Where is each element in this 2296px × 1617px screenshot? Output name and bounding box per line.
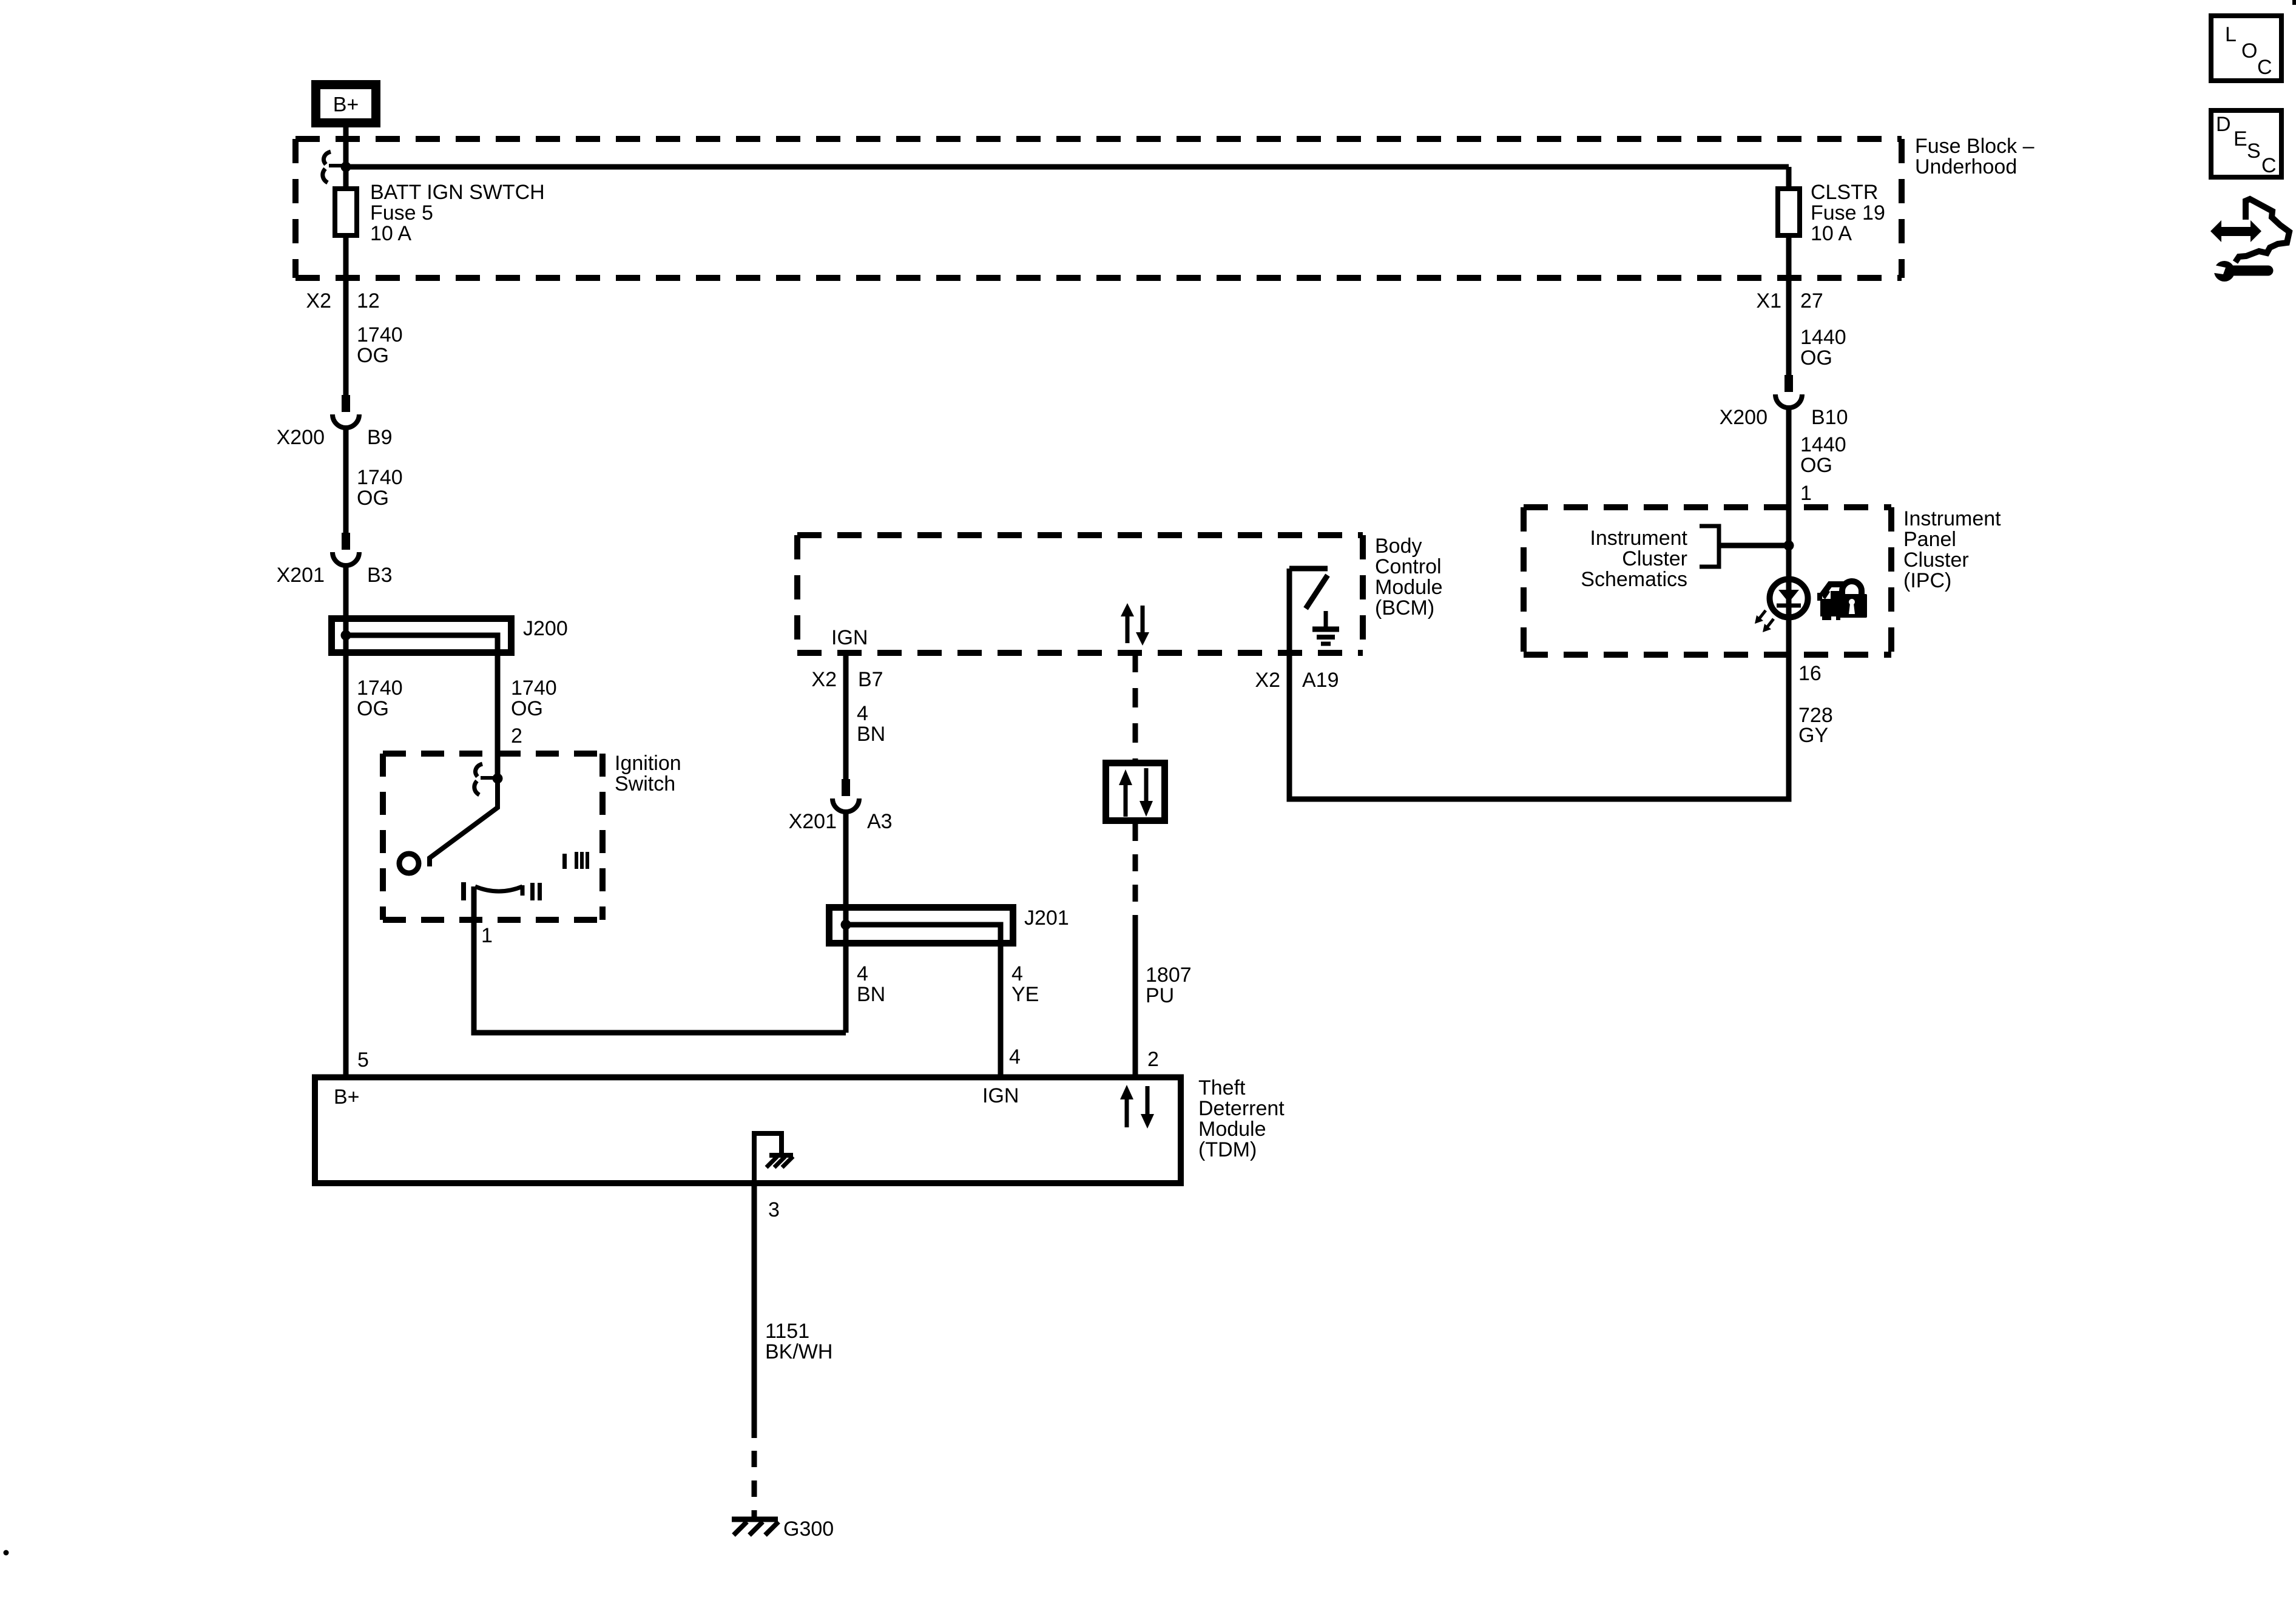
ignition switch label [615, 752, 681, 795]
BCM dashed box [797, 535, 1363, 653]
svg-text:27: 27 [1800, 289, 1823, 312]
svg-text:10 A: 10 A [1811, 222, 1852, 245]
svg-text:PU: PU [1146, 984, 1174, 1007]
security indicator LED [1770, 579, 1808, 618]
wire A3 through J201 to jog [843, 812, 849, 1033]
pin 2 label TDM [1147, 1048, 1159, 1071]
ignition switch input node and clip contact [474, 764, 503, 795]
fuse F5 labels [370, 181, 545, 245]
pin X2-A19 labels [1255, 669, 1339, 692]
svg-text:Module: Module [1375, 576, 1443, 599]
pin 4 label TDM [1009, 1045, 1021, 1068]
svg-text:X2: X2 [1255, 669, 1280, 692]
svg-text:Fuse 19: Fuse 19 [1811, 201, 1885, 224]
pin 1 label IPC [1800, 482, 1812, 505]
svg-text:BK/WH: BK/WH [765, 1340, 832, 1363]
svg-text:Control: Control [1375, 555, 1442, 578]
wire label 728 GY [1798, 704, 1833, 747]
svg-text:Switch: Switch [615, 772, 675, 795]
svg-text:4: 4 [857, 702, 868, 725]
position II marks [530, 883, 542, 900]
svg-text:OG: OG [357, 344, 389, 367]
svg-text:YE: YE [1011, 983, 1039, 1006]
svg-text:5: 5 [357, 1048, 369, 1072]
LED emission arrows [1755, 610, 1774, 632]
TDM box [315, 1078, 1181, 1184]
BCM IGN output label [831, 626, 868, 649]
svg-text:1740: 1740 [357, 323, 403, 346]
wire label 1740 OG (left below J200) [357, 677, 403, 720]
pin 3 label TDM [768, 1198, 780, 1221]
pin 2 label ignition switch [511, 724, 522, 748]
svg-text:(BCM): (BCM) [1375, 596, 1434, 619]
svg-text:X200: X200 [1720, 406, 1768, 429]
ground wire 1151 BK/WH [752, 1183, 757, 1518]
svg-text:X201: X201 [277, 564, 325, 587]
wire B+ terminal to bus [343, 127, 349, 167]
wire label 1740 OG (right branch) [511, 677, 557, 720]
svg-text:Theft: Theft [1198, 1076, 1246, 1099]
power terminal B+ [316, 85, 376, 123]
inline connector serial data pass-through [1106, 763, 1165, 821]
svg-text:BN: BN [857, 723, 885, 746]
wire label 1151 BK/WH [765, 1320, 832, 1363]
wire label 4 BN (below J201) [857, 962, 885, 1006]
fuse F19 labels [1811, 181, 1885, 245]
wire B9 to B3 [343, 428, 349, 533]
svg-text:Instrument: Instrument [1903, 507, 2001, 530]
node: junction at LED feed [1784, 541, 1794, 551]
wire BCM B7 (IGN) down [843, 653, 849, 779]
svg-text:O: O [2241, 39, 2257, 62]
wire fuse19 branch down [1786, 167, 1792, 375]
svg-text:E: E [2234, 127, 2247, 150]
svg-text:Panel: Panel [1903, 528, 1956, 551]
ignition switch dashed box [383, 754, 603, 920]
svg-text:B7: B7 [858, 668, 883, 691]
TDM IGN pin label [982, 1084, 1019, 1107]
wire label 1440 OG (above B10) [1800, 326, 1846, 370]
fuse block label [1915, 135, 2034, 178]
svg-text:CLSTR: CLSTR [1811, 181, 1878, 204]
svg-text:Deterrent: Deterrent [1198, 1097, 1285, 1120]
svg-text:OG: OG [357, 487, 389, 510]
ignition switch movable blade [430, 778, 498, 866]
svg-text:Schematics: Schematics [1581, 568, 1687, 591]
fuse F5 BATT IGN SWTCH 10A [335, 189, 357, 235]
wire label 1740 OG (segment 2) [357, 466, 403, 510]
bus wire from B+ to fuse 19 [346, 164, 1789, 170]
svg-text:A3: A3 [867, 810, 893, 833]
serial data wire BCM to inline connector (dashed) [1133, 653, 1138, 760]
svg-text:J201: J201 [1024, 906, 1069, 930]
TDM internal ground symbol [754, 1133, 793, 1183]
TDM label [1198, 1076, 1285, 1161]
svg-text:1: 1 [481, 924, 493, 947]
svg-text:D: D [2216, 113, 2231, 136]
ground G300 [732, 1517, 834, 1541]
wire label 4 BN (above A3) [857, 702, 885, 746]
svg-text:OG: OG [1800, 346, 1832, 370]
svg-text:4: 4 [1009, 1045, 1021, 1068]
svg-text:1440: 1440 [1800, 433, 1846, 456]
svg-text:X2: X2 [306, 289, 331, 312]
svg-text:1740: 1740 [511, 677, 557, 700]
wire label 4 YE [1011, 962, 1039, 1006]
svg-text:1440: 1440 [1800, 326, 1846, 349]
svg-text:Fuse 5: Fuse 5 [370, 201, 433, 224]
ignition pin 1 wire to J201 branch [474, 886, 846, 1033]
TDM B+ pin label [334, 1085, 360, 1109]
svg-text:(IPC): (IPC) [1903, 569, 1951, 592]
svg-text:16: 16 [1798, 662, 1822, 685]
svg-text:B9: B9 [367, 426, 393, 449]
svg-text:Ignition: Ignition [615, 752, 681, 775]
wire B3 through J200 to TDM pin 5 [343, 565, 349, 1078]
svg-text:1740: 1740 [357, 677, 403, 700]
svg-text:OG: OG [1800, 454, 1832, 477]
svg-text:X200: X200 [277, 426, 325, 449]
connector X200 pin B10 [1720, 375, 1848, 429]
position III marks [562, 852, 589, 869]
svg-text:1: 1 [1800, 482, 1812, 505]
TDM serial data arrows [1120, 1085, 1154, 1129]
svg-text:1807: 1807 [1146, 964, 1192, 987]
svg-text:A19: A19 [1302, 669, 1339, 692]
svg-text:(TDM): (TDM) [1198, 1138, 1257, 1161]
position I mark [461, 882, 466, 900]
svg-text:Body: Body [1375, 535, 1422, 558]
svg-text:B10: B10 [1811, 406, 1848, 429]
svg-text:Cluster: Cluster [1903, 549, 1969, 572]
instrument cluster schematics reference [1581, 526, 1789, 591]
BCM label [1375, 535, 1443, 619]
connector X200 pin B9 [277, 395, 393, 449]
BCM internal switch to ground [1289, 569, 1328, 609]
service information icon (arrow / connector / wrench) [2210, 199, 2289, 282]
svg-text:1740: 1740 [357, 466, 403, 489]
svg-text:G300: G300 [783, 1517, 834, 1541]
IPC label [1903, 507, 2001, 592]
wire B10 into IPC to LED [1786, 408, 1792, 655]
svg-text:Underhood: Underhood [1915, 155, 2017, 178]
svg-text:BATT IGN SWTCH: BATT IGN SWTCH [370, 181, 545, 204]
vehicle security icon (car with padlock) [1817, 581, 1867, 620]
serial data wire 1807 PU to TDM [1133, 824, 1138, 1078]
wire label 1440 OG (below B10) [1800, 433, 1846, 477]
svg-text:4: 4 [857, 962, 868, 985]
svg-text:2: 2 [1147, 1048, 1159, 1071]
svg-text:3: 3 [768, 1198, 780, 1221]
IPC dashed box [1524, 507, 1891, 655]
wire IPC pin16 to BCM A19 [1289, 569, 1789, 799]
svg-text:C: C [2261, 154, 2277, 177]
fuse block underhood dashed box [295, 139, 1902, 278]
wire label 1807 PU [1146, 964, 1192, 1007]
svg-text:B3: B3 [367, 564, 393, 587]
svg-text:OG: OG [511, 697, 543, 720]
svg-text:10 A: 10 A [370, 222, 411, 245]
wire label 1740 OG (segment 1) [357, 323, 403, 367]
pin X2-B7 labels [811, 668, 883, 691]
wire through fuse 5 [343, 167, 349, 395]
svg-text:IGN: IGN [831, 626, 868, 649]
svg-text:IGN: IGN [982, 1084, 1019, 1107]
pin 1 label [481, 924, 493, 947]
svg-text:C: C [2257, 56, 2272, 79]
svg-text:S: S [2247, 140, 2261, 163]
svg-text:J200: J200 [523, 617, 568, 640]
node: bus junction at B+ entry [341, 162, 351, 172]
svg-text:2: 2 [511, 724, 522, 748]
BCM serial data arrows [1121, 603, 1149, 646]
svg-text:B+: B+ [333, 93, 359, 116]
svg-text:OG: OG [357, 697, 389, 720]
position I-II contact arc [475, 885, 522, 896]
svg-text:GY: GY [1798, 724, 1828, 747]
svg-text:B+: B+ [334, 1085, 360, 1109]
svg-text:BN: BN [857, 983, 885, 1006]
pin X1-27 of fuse block [1756, 289, 1823, 312]
pin X2-12 of fuse block [306, 289, 379, 312]
connector X201 pin A3 [789, 779, 893, 833]
svg-text:Fuse Block –: Fuse Block – [1915, 135, 2034, 158]
svg-text:Module: Module [1198, 1118, 1266, 1141]
clip contact symbol at B+ entry [323, 152, 342, 183]
svg-text:12: 12 [357, 289, 380, 312]
svg-text:L: L [2225, 23, 2237, 46]
svg-text:Cluster: Cluster [1622, 547, 1687, 570]
ignition switch terminal ring [399, 854, 419, 873]
svg-text:1151: 1151 [765, 1320, 809, 1343]
pin 16 label IPC [1798, 662, 1822, 685]
fuse F19 CLSTR 10A [1778, 189, 1800, 235]
BCM internal ground symbol [1312, 611, 1339, 644]
connector X201 pin B3 [277, 533, 393, 587]
svg-text:X2: X2 [811, 668, 837, 691]
svg-text:4: 4 [1011, 962, 1023, 985]
LOC reference box [2211, 16, 2281, 81]
pin 5 label TDM [357, 1048, 369, 1072]
splice pack J200 [332, 617, 568, 778]
svg-text:X201: X201 [789, 810, 837, 833]
DESC reference box [2211, 110, 2281, 177]
svg-text:X1: X1 [1756, 289, 1781, 312]
splice pack J201 [829, 906, 1069, 1078]
svg-text:Instrument: Instrument [1590, 527, 1687, 550]
